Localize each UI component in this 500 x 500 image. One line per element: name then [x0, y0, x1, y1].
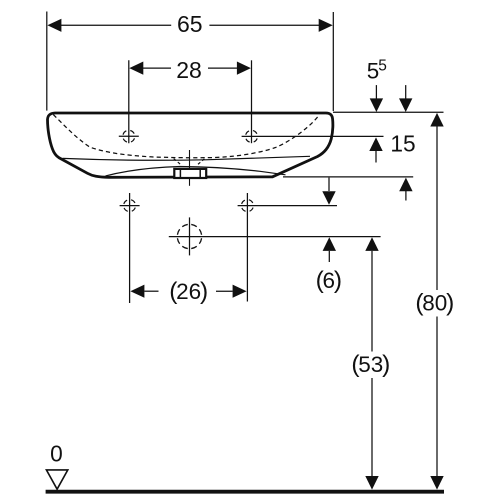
drain: dashed circle: [177, 224, 201, 248]
overflow fitting centerline: [189, 150, 191, 186]
dim 5.5: left down arrowhead: [370, 98, 383, 112]
tap hole right: cross: [251, 60, 253, 143]
dim (53): vertical line upper: [371, 251, 373, 352]
drain funnel dashed slants: [174, 159, 205, 165]
fixing hole line extended right (line4): [238, 205, 337, 207]
dim 65: dimension line: [61, 24, 319, 26]
dim 5.5: up arrowhead under tap line: [369, 137, 382, 151]
drain: vertical cross arm: [189, 217, 191, 255]
svg-text:(26): (26): [169, 278, 208, 305]
fixing hole right: dashed circle: [241, 200, 253, 212]
tap hole left: cross: [119, 60, 139, 143]
overflow fitting rectangle: [174, 169, 206, 178]
dim 15: up arrow stem: [405, 191, 407, 201]
dim (26): left arrowhead: [130, 285, 144, 298]
basin bottom line extended right (line3): [283, 176, 413, 178]
basin inner bowl front edge curve: [106, 167, 286, 176]
dim 65: right arrowhead: [319, 19, 333, 32]
basin back rim thin line: [63, 156, 311, 160]
fixing hole left: dashed circle: [124, 200, 136, 212]
svg-text:(80): (80): [415, 290, 454, 317]
dim 65: right extension line: [332, 12, 334, 111]
dim (53): vertical line lower: [371, 378, 373, 476]
tap hole right: dashed circle: [246, 130, 258, 142]
dim (53): up arrowhead at drain line: [365, 237, 378, 251]
fixing hole left: cross: [120, 193, 140, 303]
dim 15: down arrowhead: [399, 98, 412, 112]
dim 28: dimension line: [143, 67, 237, 69]
svg-text:(6): (6): [316, 267, 342, 294]
top surface line extended right (line1): [333, 111, 444, 113]
dim (6): down arrowhead: [322, 191, 335, 205]
dim (26): dimension line right: [216, 290, 233, 292]
dim (80): up arrowhead at top line: [430, 113, 443, 127]
dim 5.5: up arrow stem: [375, 151, 377, 163]
washbasin outer outline: [48, 113, 333, 177]
dim 28: right arrowhead: [237, 62, 251, 75]
dim (6): up arrow stem: [328, 251, 330, 262]
svg-text:28: 28: [176, 57, 202, 83]
dim (80): vertical line upper: [436, 126, 438, 290]
dim 28: left arrowhead: [129, 62, 143, 75]
svg-text:5: 5: [378, 58, 387, 75]
dim 15: up arrowhead under bottom line: [399, 178, 412, 192]
tap hole centre line extended right (line2): [242, 135, 384, 137]
dim (80): vertical line lower: [436, 317, 438, 477]
svg-text:15: 15: [390, 131, 415, 157]
datum triangle: [46, 470, 67, 489]
svg-text:(53): (53): [351, 351, 390, 378]
fixing hole right: cross: [246, 193, 248, 302]
overflow fitting inner ticks: [180, 169, 200, 178]
dim 65: left extension line: [46, 12, 48, 111]
svg-text:0: 0: [50, 440, 63, 466]
dim (26): right arrowhead: [233, 285, 247, 298]
dim 5.5: left down arrow stem: [375, 85, 377, 99]
basin inner rim dashed curve: [53, 115, 319, 158]
floor line: [46, 490, 444, 494]
dim (53): down arrowhead at floor: [365, 476, 378, 490]
dim (80): down arrowhead at floor: [430, 476, 443, 490]
svg-text:65: 65: [177, 11, 203, 37]
dim (6): down arrow stem: [328, 178, 330, 191]
drain centre line extended right (line5): [169, 236, 381, 238]
dim 15: down arrow stem: [405, 85, 407, 99]
dim (6): up arrowhead: [323, 237, 336, 251]
dim (26): dimension line left: [144, 290, 158, 292]
dim 65: left arrowhead: [47, 19, 61, 32]
tap hole left: dashed circle: [123, 130, 135, 142]
